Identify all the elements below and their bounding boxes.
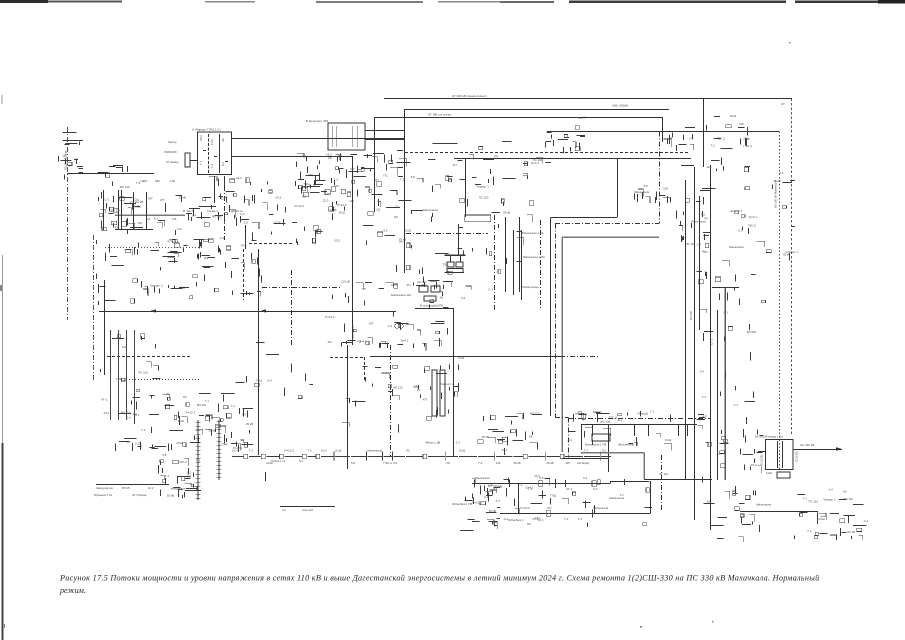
svg-text:Чирюрт 1: Чирюрт 1 [441,382,454,386]
wire bus 330kV second [405,109,669,111]
wire y165 stub [681,165,694,167]
cluster H1 [97,239,216,305]
svg-text:10,4: 10,4 [232,449,238,453]
wire dashdot x659 [659,132,661,224]
svg-text:КЗ: КЗ [440,296,444,300]
svg-text:115: 115 [172,217,177,221]
svg-text:нЭ-ЭщАр: нЭ-ЭщАр [577,461,590,465]
svg-text:10,1: 10,1 [538,518,544,522]
svg-text:6,3: 6,3 [739,229,743,233]
substation T frame [766,440,794,470]
svg-text:Чирюрт 1: Чирюрт 1 [150,284,163,288]
svg-text:118: 118 [349,199,354,203]
svg-text:ОВ: ОВ [221,138,225,142]
cluster Y extras [421,365,459,421]
svg-text:Приер: Приер [168,140,177,144]
svg-text:Q=4,1: Q=4,1 [749,215,757,219]
wire jog v [610,481,612,484]
svg-text:22,0: 22,0 [421,283,427,287]
box J c [447,269,463,273]
labels left of sub A [168,140,177,144]
svg-text:ПС: ПС [547,506,551,510]
svg-text:35 кВ: 35 кВ [513,461,520,465]
label J right 2 [523,255,545,259]
svg-text:5,8: 5,8 [539,476,543,480]
cluster V2 right labels [696,187,765,473]
svg-text:Р=12,3: Р=12,3 [285,449,295,453]
svg-text:-8,1: -8,1 [406,283,411,287]
svg-text:А ЕКг: А ЕКг [766,472,772,475]
svg-text:-1,3: -1,3 [455,441,460,445]
svg-text:+ЗЕР: +ЗЕР [140,179,147,183]
wire y484 left [96,484,169,486]
substation T rail 1 [777,441,779,468]
svg-text:ПС: ПС [406,449,410,453]
row S2 b [94,493,147,497]
svg-text:АТГ: АТГ [160,198,165,202]
cluster I [325,280,453,351]
svg-text:ВЛ 330: ВЛ 330 [747,330,757,334]
cluster Z connector [664,128,696,152]
cluster K4 [159,453,202,499]
svg-text:АТ-1: АТ-1 [566,487,572,491]
svg-text:Т-2: Т-2 [141,428,146,432]
svg-text:АТ 330 кВ схема перекл.: АТ 330 кВ схема перекл. [452,94,487,98]
svg-text:2СШ: 2СШ [730,114,737,118]
svg-text:С-1: С-1 [697,243,702,247]
row S3 chain labels [282,508,313,512]
label R left [452,502,472,506]
svg-text:Б Кизилюрт 330: Б Кизилюрт 330 [306,119,328,123]
svg-text:С-1: С-1 [357,339,362,343]
cluster y131 junction [547,116,587,153]
cluster L sparse [231,343,313,417]
svg-text:АТГ: АТГ [326,192,331,196]
svg-text:ГЭС-2: ГЭС-2 [179,460,188,464]
svg-text:режим.: режим. [59,586,86,595]
svg-text:Г-1: Г-1 [584,449,589,453]
wire thick gray y452 [581,452,644,454]
label y464 [577,461,590,465]
wire chain y513 [500,513,650,515]
wire bus 330kV top [384,98,792,100]
svg-text:-2,4: -2,4 [387,324,392,328]
svg-text:ГЭС-2: ГЭС-2 [384,461,393,465]
svg-text:Г-1: Г-1 [803,496,808,500]
svg-text:Т-2: Т-2 [701,212,706,216]
wire dashdot x494 [494,215,496,310]
scan artifact left border [0,95,3,640]
svg-text:-2,4: -2,4 [219,236,224,240]
wire y139 from sub B2 [365,139,404,141]
svg-text:Избербаш 1 ПВ: Избербаш 1 ПВ [452,502,472,506]
wire right x685 [685,180,687,480]
svg-text:ТЭЦ: ТЭЦ [304,182,311,186]
svg-text:ТЭЦ: ТЭЦ [256,378,263,382]
cluster below sub A [203,176,251,209]
unit box Y1 [432,370,437,416]
cluster F left boost [297,156,340,243]
wire dash frame top [330,357,364,359]
svg-text:ГЭС-2: ГЭС-2 [744,144,753,148]
svg-text:ВЛ 110: ВЛ 110 [120,185,130,189]
svg-text:-8,1: -8,1 [601,449,606,453]
svg-text:Т-2: Т-2 [578,517,583,521]
svg-text:КЗ: КЗ [302,194,306,198]
svg-text:Чирюрт 1: Чирюрт 1 [476,185,489,189]
wire x518 [518,484,520,514]
substation B2 rail 2 [336,126,338,147]
wire y156 from sub A [232,156,352,158]
svg-text:0,4: 0,4 [461,296,465,300]
wire dashdot x93 [93,235,95,380]
svg-text:Т-2: Т-2 [307,449,312,453]
svg-text:С-1: С-1 [723,311,728,315]
svg-text:ТЭЦ: ТЭЦ [221,442,228,446]
svg-text:Г-1: Г-1 [205,399,210,403]
svg-text:ПС 110: ПС 110 [809,500,819,504]
wire y130 from sub B2 [365,130,404,132]
svg-text:Терма 1: Терма 1 [207,209,218,213]
unit box Y2 [440,370,445,416]
svg-text:Т-1: Т-1 [249,449,254,453]
svg-text:0,4: 0,4 [700,370,704,374]
svg-text:ВЛ 330: ВЛ 330 [212,215,222,219]
svg-text:ВЛ 110: ВЛ 110 [393,385,403,389]
svg-text:Т-2: Т-2 [334,177,339,181]
svg-text:АТГ: АТГ [414,385,419,389]
chain y513 ticks [503,506,609,521]
svg-text:-15,2: -15,2 [334,239,341,243]
svg-text:Q=4,1: Q=4,1 [526,485,534,489]
svg-text:Т-1: Т-1 [338,153,343,157]
svg-text:Агач 110: Агач 110 [302,508,313,512]
svg-text:115: 115 [565,461,570,465]
cluster E3 [186,205,249,239]
cluster T1 [703,429,772,542]
svg-text:22,0: 22,0 [236,176,242,180]
svg-text:113: 113 [334,184,339,188]
svg-text:330г 330кВ: 330г 330кВ [612,104,628,108]
wire chain y481 jog [610,481,649,483]
wire y131 [547,131,779,133]
svg-text:Т-2: Т-2 [478,461,483,465]
svg-text:ВЛ 110: ВЛ 110 [197,403,207,407]
wire thick x725 [724,287,726,480]
wire left drop x374 [374,117,376,212]
cluster B left small [59,133,84,180]
svg-text:2СШ: 2СШ [335,449,342,453]
wire J drop a [450,255,452,262]
svg-text:ПС: ПС [394,215,398,219]
cluster E4 [252,181,304,235]
wire x505 [505,217,507,292]
svg-text:Приморская: Приморская [522,285,539,289]
arrow right [836,447,842,451]
svg-text:КЗ: КЗ [843,489,847,493]
speck 3 [4,624,5,628]
svg-text:ГЭС-2: ГЭС-2 [609,416,618,420]
svg-text:111: 111 [327,340,332,344]
wire dotted y379 [129,379,200,381]
substation A rail 2 [219,134,221,173]
svg-text:ПС 110: ПС 110 [479,196,489,200]
svg-text:Р=12,3: Р=12,3 [472,500,482,504]
wire bottom right y511 [740,511,818,513]
svg-text:35 кВ: 35 кВ [503,211,510,215]
svg-text:ВЛ 35: ВЛ 35 [122,486,130,490]
wire dashdot x291 [291,270,293,345]
wire y158 [454,158,691,160]
row S2 a [96,486,154,490]
svg-text:-2,4: -2,4 [267,379,272,383]
svg-text:Т-2: Т-2 [210,164,214,168]
svg-text:АТГ: АТГ [308,173,313,177]
svg-text:РУ: РУ [242,413,246,417]
svg-text:РУ: РУ [400,240,404,244]
wire dashdot y356 [560,356,600,358]
wire y229 [115,229,153,231]
svg-text:115: 115 [496,461,501,465]
wire x662 stub [662,117,664,142]
wire dashdot jog y417 [555,417,568,419]
svg-text:МЫ: МЫ [155,179,160,183]
svg-text:ВЛ 330: ВЛ 330 [689,310,693,320]
svg-text:КЗ: КЗ [393,461,397,465]
svg-text:6,3: 6,3 [779,171,783,175]
hatch column x219 [217,420,222,480]
wire y356 [370,356,560,358]
wire x352 [352,156,354,345]
svg-text:С-1: С-1 [135,413,140,417]
svg-text:Г-1: Г-1 [651,410,656,414]
wire dashdot x224 [224,176,226,240]
wire x214 below sub A [214,176,216,203]
cluster O [677,197,712,254]
wire right drop x779 [779,132,781,471]
label J right 1 [522,231,544,235]
substation A tick 2 [214,156,217,158]
wire dashdot y233 [406,233,488,235]
svg-text:Q=4,1: Q=4,1 [401,339,409,343]
wire dashdot x390 [390,345,392,456]
svg-text:1СШ: 1СШ [665,438,672,442]
svg-text:35 кВ: 35 кВ [246,422,253,426]
speck 2 [712,621,714,622]
svg-text:ПС: ПС [527,522,531,526]
svg-text:ДБ 40 ль: ДБ 40 ль [231,209,243,213]
svg-text:Махачкала: Махачкала [756,503,771,507]
svg-text:10,4: 10,4 [391,283,397,287]
labels left of sub A 2 [164,150,177,154]
svg-text:Т-1: Т-1 [619,493,624,497]
row S3 [271,459,303,463]
svg-text:2СШ: 2СШ [176,441,183,445]
svg-text:35 кВ: 35 кВ [179,195,186,199]
svg-text:35 кВ: 35 кВ [482,435,489,439]
svg-text:35 кВ: 35 кВ [546,461,553,465]
cluster P extras [567,410,707,451]
wire x521 [521,230,523,300]
busbar y308 [415,308,454,310]
svg-text:АТГ: АТГ [374,178,379,182]
svg-text:Махачкала: Махачкала [634,190,649,194]
svg-text:5,8: 5,8 [644,184,648,188]
svg-text:ВЛ 330 кВ Махачкала: ВЛ 330 кВ Махачкала [774,180,778,208]
svg-text:С-1: С-1 [733,403,738,407]
svg-text:Р=12,3: Р=12,3 [295,204,305,208]
box top J [465,215,491,222]
cluster W2 [757,171,799,260]
svg-text:Махачкала 1 ПВ: Махачкала 1 ПВ [585,443,606,447]
svg-text:АТГ: АТГ [350,167,355,171]
wire drop x634 [634,424,636,436]
wire dashdot y223 [555,223,659,225]
svg-text:Чирюрт 1: Чирюрт 1 [785,250,798,254]
svg-text:5,2: 5,2 [299,459,303,463]
wire x265 stub [265,472,267,481]
wire drop x608 [608,424,610,436]
svg-text:-8,1: -8,1 [617,418,622,422]
svg-text:4,4: 4,4 [282,508,286,512]
busbar y272 [445,272,464,274]
wire chain y483 [472,483,610,485]
svg-text:Г-1: Г-1 [303,154,308,158]
svg-text:10,4: 10,4 [321,449,327,453]
box J b [456,262,463,267]
svg-text:С-1: С-1 [104,197,109,201]
svg-text:В. ЭК-41: В. ЭК-41 [183,209,195,213]
svg-text:-2,4: -2,4 [828,487,833,491]
svg-text:-2,4: -2,4 [863,519,868,523]
svg-text:5,8: 5,8 [162,453,166,457]
svg-text:(к)1-1(к): (к)1-1(к) [600,420,610,424]
svg-text:В-1: В-1 [221,161,225,166]
box J a [447,262,454,267]
svg-text:5,8: 5,8 [146,217,150,221]
wire y173 [67,173,154,175]
cluster F network [297,151,407,246]
box J d [419,286,428,292]
svg-text:НТ Победа: НТ Победа [132,493,147,497]
svg-text:1СШ-330: 1СШ-330 [761,454,764,465]
wire x121 [121,190,123,229]
wire drop x592 [592,424,594,436]
svg-text:КЗ: КЗ [707,499,711,503]
arrow y311 b [260,309,266,312]
svg-text:Р=12,3: Р=12,3 [325,315,335,319]
svg-text:Т-2: Т-2 [400,178,405,182]
substation A rail dashed [208,134,210,173]
svg-text:СГ-1: СГ-1 [710,339,714,345]
svg-text:10,4: 10,4 [534,474,540,478]
cluster C [98,166,144,231]
cluster R column x484 [485,483,502,530]
wire dash frame right [364,357,366,380]
wire right x710 [710,165,712,530]
svg-text:113: 113 [177,227,182,231]
svg-text:ВЛ 330 кВ вывод 1 Гол: ВЛ 330 кВ вывод 1 Гол [755,435,784,439]
svg-text:115: 115 [137,221,142,225]
wire 330kV right drop x791 [791,98,793,434]
wire drop x678 [678,424,680,436]
svg-text:2СШ: 2СШ [459,449,466,453]
svg-text:Г-1: Г-1 [704,250,709,254]
hatch column x198 [196,420,201,500]
svg-text:РУ: РУ [718,452,722,456]
substation A frame [198,132,232,175]
wire x650 [650,481,652,514]
wire x118 [118,190,120,229]
labels left of sub A 3 [166,160,179,164]
svg-text:С-1: С-1 [488,288,493,292]
wire J drop b [460,255,462,262]
svg-text:-15,2: -15,2 [275,195,282,199]
svg-text:Т-1: Т-1 [165,474,170,478]
label J right 3 [522,285,539,289]
wire drop x465 [465,159,467,218]
wire dashed y152 [405,152,688,154]
wire dash x243 [243,249,245,300]
row I labels [391,283,441,287]
svg-text:ПС 110: ПС 110 [659,472,669,476]
chain y483 ticks [475,476,598,491]
svg-text:6,3: 6,3 [496,499,500,503]
box row P [592,434,610,441]
substation T bottom box [777,472,790,478]
svg-text:5,8: 5,8 [411,175,415,179]
wire x513 [513,230,515,295]
svg-text:Айбрга 1 ДБ: Айбрга 1 ДБ [425,441,441,445]
wire x104 [104,280,106,375]
svg-text:0,4: 0,4 [583,476,587,480]
svg-text:110 кВ: 110 кВ [846,530,855,534]
svg-text:35 кВ: 35 кВ [489,509,496,513]
cluster M [342,356,465,432]
wire x519 [519,217,521,292]
substation A side wire [190,160,198,162]
svg-text:ТЭЦ: ТЭЦ [442,263,449,267]
svg-text:ПС 110: ПС 110 [686,242,696,246]
cluster K2 dense [116,392,254,452]
svg-text:2СШ: 2СШ [339,210,346,214]
cluster R extras [460,472,668,530]
svg-text:Т-1: Т-1 [436,283,441,287]
svg-text:118: 118 [739,122,744,126]
cluster K1 verticals [101,330,161,420]
labels below y513 [508,518,544,522]
label y424 [600,420,610,424]
wire x581 [581,424,583,450]
label P row [585,443,634,447]
wire x608 [608,424,610,472]
cluster G sparse [428,142,551,168]
svg-text:Т-1: Т-1 [807,529,812,533]
svg-text:ЛЭП2100: ЛЭП2100 [164,150,177,154]
wire bus 330kV third [374,117,662,119]
substation B2 rail 3 [352,126,354,147]
wire dashdot x661 [661,455,663,512]
svg-text:Р=12,3: Р=12,3 [521,506,531,510]
scan artifact top band [0,0,905,4]
svg-text:Т-2: Т-2 [564,517,569,521]
svg-text:Махачкала: Махачкала [423,208,438,212]
svg-text:Г-1: Г-1 [518,483,523,487]
svg-text:ВЛ 110: ВЛ 110 [132,205,142,209]
labels above chain right [425,441,460,445]
svg-text:118: 118 [707,165,712,169]
svg-text:АТГ: АТГ [422,397,427,401]
